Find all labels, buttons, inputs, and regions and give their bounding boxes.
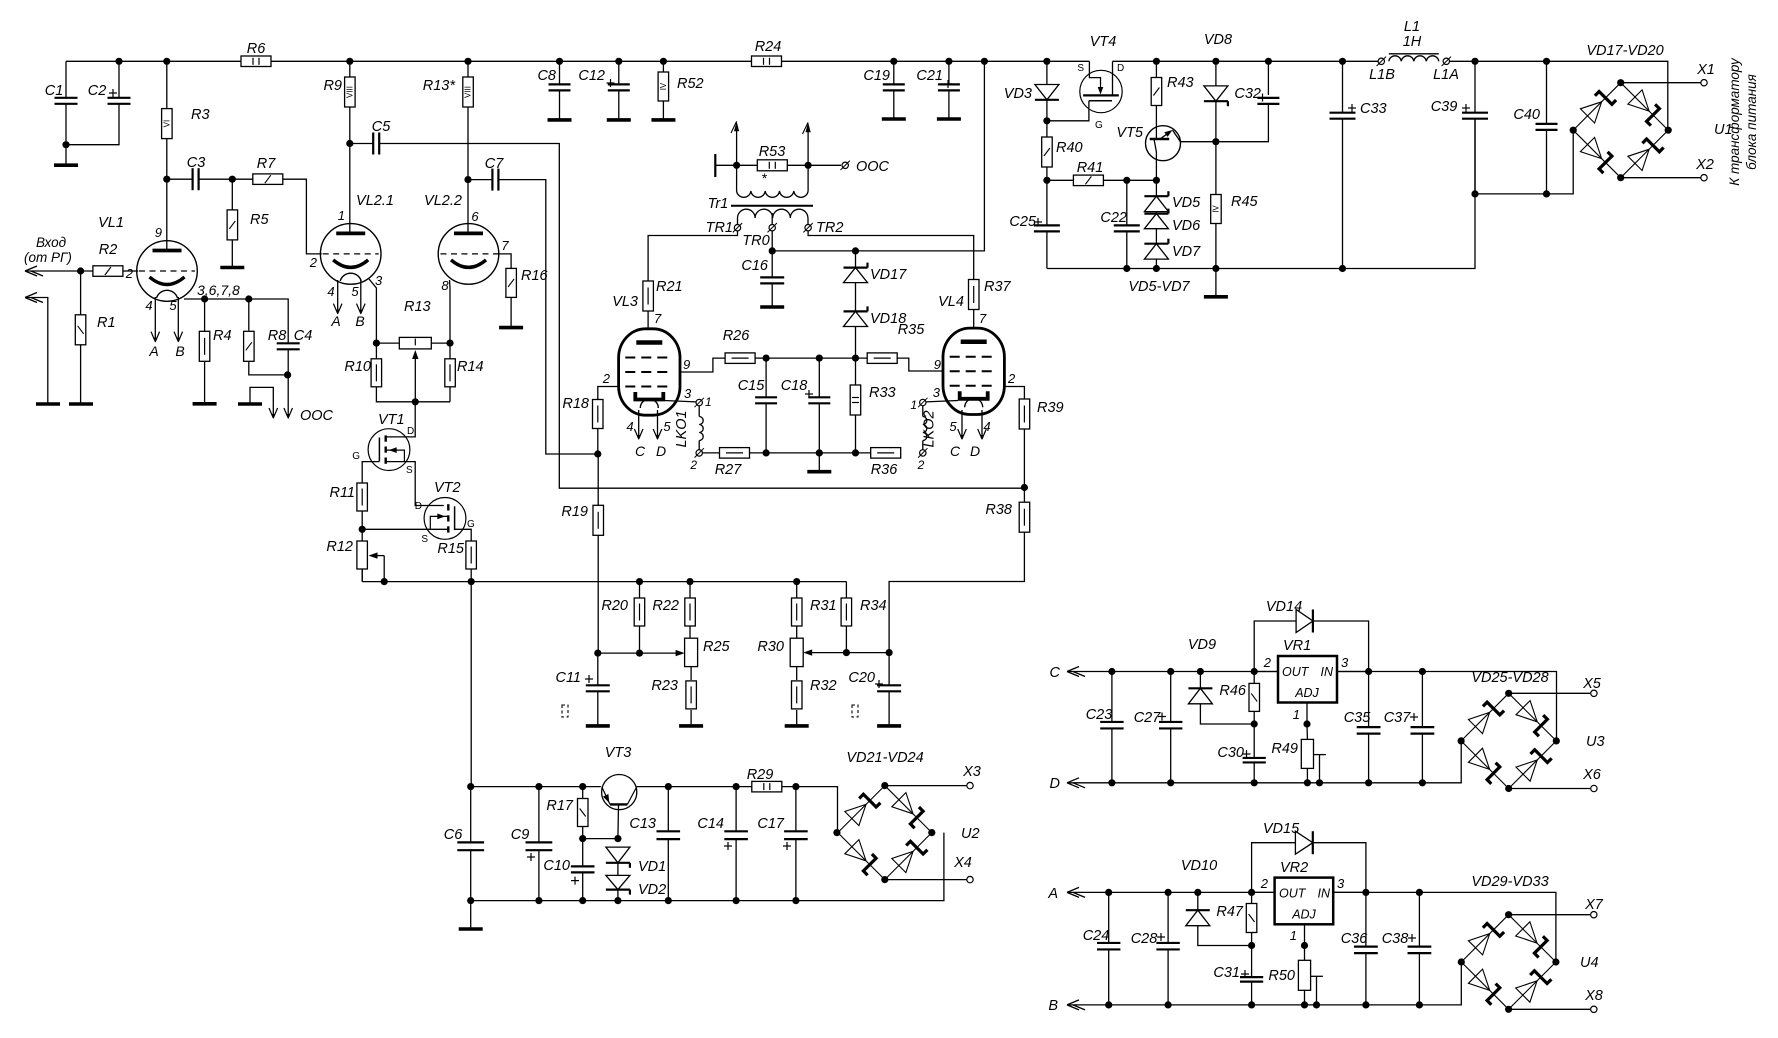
terminal X2: [1621, 177, 1701, 179]
svg-text:C16: C16: [741, 258, 769, 274]
capacitor C8: [559, 61, 561, 84]
resistor R10: [375, 343, 377, 359]
ground under R23: [679, 724, 703, 728]
svg-text:2: 2: [1007, 371, 1016, 386]
svg-text:9: 9: [683, 357, 690, 372]
resistor R22: [689, 582, 691, 598]
capacitor C37: [1421, 672, 1423, 728]
capacitor C7: [464, 176, 471, 183]
svg-text:R21: R21: [656, 279, 683, 295]
rail B: [1067, 962, 1461, 1005]
diode VD15: [1252, 843, 1296, 893]
transistor VT3 bjt: [602, 775, 637, 810]
svg-text:1: 1: [705, 395, 712, 409]
svg-text:R26: R26: [723, 328, 751, 344]
resistor R46: [1253, 672, 1255, 684]
trimmer tap R49: [1314, 754, 1326, 756]
terminal TR2: [805, 225, 811, 231]
resistor R24: [752, 56, 782, 67]
capacitor C33: [1342, 61, 1344, 112]
transistor VT5 bjt: [1155, 106, 1157, 140]
capacitor C21: [948, 61, 950, 84]
transistor VT4 mosfet pass: [1080, 70, 1122, 112]
svg-text:R23: R23: [651, 678, 678, 694]
svg-text:R11: R11: [329, 485, 355, 501]
svg-text:L1В: L1В: [1369, 67, 1395, 83]
svg-text:VD7: VD7: [1172, 244, 1201, 260]
svg-text:IN: IN: [1321, 665, 1334, 679]
resistor R12 potentiometer: [357, 541, 368, 569]
svg-text:7: 7: [501, 238, 509, 253]
svg-text:C21: C21: [916, 68, 943, 84]
cathode bottom wire LKO1 R27 R36 LKO2: [702, 452, 870, 454]
svg-text:R13: R13: [404, 299, 431, 315]
svg-text:R20: R20: [601, 598, 628, 614]
svg-text:C32: C32: [1234, 86, 1261, 102]
svg-text:VD9: VD9: [1188, 637, 1216, 653]
svg-text:X3: X3: [962, 764, 981, 780]
svg-text:1: 1: [338, 208, 345, 223]
svg-text:R2: R2: [99, 242, 118, 258]
terminal TR1: [734, 225, 740, 231]
resistor R47: [1251, 892, 1253, 903]
wiper wire to R30: [807, 652, 890, 654]
arrow up right of Tr1: [807, 128, 809, 165]
svg-text:VI: VI: [162, 120, 171, 128]
wire VL3 cathode pin3 to LKO1: [664, 401, 696, 402]
capacitor C24: [1108, 892, 1110, 943]
svg-text:VT2: VT2: [434, 480, 461, 496]
svg-text:R18: R18: [562, 396, 589, 412]
svg-text:ООС: ООС: [300, 408, 334, 424]
ground under C8: [548, 118, 572, 122]
ground under R52: [651, 118, 675, 122]
svg-text:R37: R37: [984, 279, 1012, 295]
bridge U2 VD21-VD24: [838, 786, 885, 833]
svg-text:C8: C8: [537, 68, 556, 84]
wire VL3 screen pin9 to R26: [680, 358, 725, 372]
capacitor C32: [1267, 61, 1269, 95]
capacitor C22: [1126, 180, 1128, 225]
resistor R3: [166, 61, 168, 179]
svg-text:A: A: [1047, 886, 1058, 902]
resistor R34: [845, 582, 847, 598]
svg-text:C11: C11: [555, 670, 581, 686]
svg-text:C19: C19: [863, 68, 890, 84]
resistor R8: [248, 299, 250, 331]
wire VL4 grid pin2 to R39: [1004, 387, 1024, 399]
terminal X6: [1509, 788, 1590, 790]
ground under C20: [877, 724, 901, 728]
svg-text:R7: R7: [257, 156, 276, 172]
ground under R16: [499, 326, 523, 330]
svg-text:R8: R8: [268, 328, 287, 344]
svg-text:R52: R52: [677, 76, 704, 92]
resistor R13* top: [467, 61, 469, 179]
capacitor C23: [1111, 672, 1113, 722]
svg-text:R1: R1: [97, 315, 116, 331]
svg-text:2: 2: [917, 458, 925, 472]
svg-text:3: 3: [375, 273, 383, 288]
svg-text:U2: U2: [961, 826, 980, 842]
wiper of R12: [383, 556, 385, 582]
resistor R23: [690, 667, 692, 680]
svg-text:R46: R46: [1219, 683, 1247, 699]
svg-text:C4: C4: [294, 328, 313, 344]
svg-text:B: B: [1048, 998, 1058, 1014]
svg-text:C28: C28: [1131, 931, 1158, 947]
svg-text:VD5-VD7: VD5-VD7: [1128, 279, 1190, 295]
terminal X4: [885, 879, 967, 881]
resistor R26: [725, 353, 755, 364]
svg-text:3,6,7,8: 3,6,7,8: [197, 282, 240, 298]
resistor R15: [466, 541, 477, 569]
svg-text:R14: R14: [457, 359, 484, 375]
wire VT4 gate to VD3 node: [1047, 101, 1089, 121]
svg-text:R10: R10: [344, 359, 371, 375]
diode VD18 zener: [855, 283, 857, 312]
svg-text:LKO1: LKO1: [674, 410, 690, 447]
resistor R30 potentiometer: [790, 638, 803, 666]
svg-text:VD1: VD1: [638, 859, 666, 875]
svg-text:3: 3: [1341, 655, 1349, 670]
wire R15 junction down to lower rail: [470, 582, 472, 787]
diode VD14: [1254, 621, 1296, 672]
tube VL4 pentode: [943, 328, 1004, 414]
wire VL4 cathode pin3 to LKO2: [926, 401, 958, 402]
capacitor C31: [1251, 946, 1253, 978]
svg-text:C22: C22: [1100, 210, 1127, 226]
svg-text:TR1: TR1: [706, 220, 733, 236]
svg-text:Вход: Вход: [36, 235, 67, 250]
svg-text:R13*: R13*: [423, 78, 457, 94]
svg-text:R5: R5: [250, 212, 269, 228]
terminal X3: [885, 785, 967, 787]
svg-text:4: 4: [626, 419, 633, 434]
dashed variant mark near C11: [562, 705, 568, 717]
svg-text:R22: R22: [652, 598, 679, 614]
svg-text:R38: R38: [985, 502, 1012, 518]
rail C: [1067, 672, 1557, 741]
svg-text:VD8: VD8: [1204, 32, 1232, 48]
resistor R27: [720, 448, 750, 459]
svg-text:C6: C6: [444, 827, 463, 843]
VT1 substrate arrow: [386, 450, 405, 462]
svg-text:2: 2: [125, 266, 134, 281]
bridge U1 VD17-VD20: [1573, 83, 1621, 131]
svg-text:C2: C2: [88, 83, 107, 99]
wire R17 to VD1 node: [583, 838, 618, 840]
svg-text:5: 5: [949, 419, 957, 434]
resistor R32: [796, 667, 798, 680]
svg-text:4: 4: [145, 298, 152, 313]
svg-text:2: 2: [689, 458, 697, 472]
wire VT2 source to R11 R12 node: [362, 528, 448, 530]
svg-text:IN: IN: [1318, 887, 1331, 901]
wire IN pin3 VR2: [1333, 891, 1366, 893]
svg-text:VIII: VIII: [464, 86, 473, 98]
capacitor C9: [538, 787, 540, 843]
svg-text:R39: R39: [1037, 400, 1064, 416]
bottom return rail of regulator head: [1047, 119, 1475, 269]
svg-text:VD2: VD2: [638, 882, 666, 898]
capacitor C39: [1474, 61, 1476, 112]
svg-text:R19: R19: [561, 504, 588, 520]
svg-text:*: *: [761, 170, 767, 186]
terminal TR0: [769, 225, 775, 231]
svg-text:1Н: 1Н: [1403, 34, 1422, 50]
svg-text:U3: U3: [1586, 734, 1605, 750]
svg-text:D: D: [656, 443, 666, 459]
svg-text:C10: C10: [543, 858, 570, 874]
svg-text:R43: R43: [1167, 75, 1194, 91]
svg-text:X4: X4: [953, 855, 972, 871]
svg-text:R25: R25: [703, 639, 731, 655]
wire VT1 source to VT2 drain: [386, 462, 444, 506]
svg-text:R45: R45: [1231, 194, 1259, 210]
wiper of R13: [414, 356, 416, 402]
capacitor C12: [618, 61, 620, 84]
wire TR2 to R37: [808, 231, 974, 280]
diode VD9: [1199, 672, 1201, 689]
resistor R14: [449, 343, 451, 359]
bottom ground rail: [471, 833, 944, 901]
svg-text:R29: R29: [747, 767, 774, 783]
svg-text:U4: U4: [1580, 955, 1599, 971]
wire VL1 cathode bus 3,6,7,8: [184, 299, 288, 344]
dashed variant mark near C20: [852, 705, 858, 717]
svg-text:VT1: VT1: [378, 412, 405, 428]
capacitor C2: [118, 61, 120, 98]
svg-text:C5: C5: [372, 119, 391, 135]
wire VL2.2 cathode pin8 down: [449, 280, 452, 343]
wire VL3 grid pin2 to R18: [598, 387, 619, 400]
svg-text:D: D: [407, 426, 414, 437]
ground under C19: [882, 117, 906, 121]
rail D: [1067, 741, 1461, 783]
wiper wire to R25: [598, 652, 681, 654]
svg-text:VD21-VD24: VD21-VD24: [846, 750, 923, 766]
svg-text:C23: C23: [1086, 707, 1113, 723]
svg-text:C24: C24: [1083, 928, 1110, 944]
trimmer tap R50: [1311, 975, 1323, 977]
ground under C1 C2: [65, 145, 67, 166]
svg-text:C30: C30: [1217, 745, 1244, 761]
resistor R17: [582, 787, 584, 799]
heater pins VL2.1: [337, 280, 339, 313]
wire OUT pin2 VR2: [1252, 891, 1275, 893]
capacitor C38: [1418, 892, 1420, 946]
regulator VR2: [1275, 878, 1334, 925]
svg-text:5: 5: [663, 419, 671, 434]
resistor R1: [80, 271, 82, 404]
rail A: [1067, 892, 1556, 962]
svg-text:Tr1: Tr1: [708, 196, 729, 212]
svg-text:R33: R33: [869, 385, 896, 401]
ground under shield: [36, 402, 60, 406]
resistor R6: [241, 56, 271, 67]
svg-text:VL3: VL3: [612, 294, 638, 310]
svg-text:C13: C13: [629, 816, 656, 832]
terminal bar left of R53: [714, 154, 716, 177]
capacitor C14: [735, 787, 737, 832]
svg-text:2: 2: [1260, 876, 1269, 891]
svg-text:S: S: [421, 534, 428, 545]
ground under C12: [607, 118, 631, 122]
svg-text:B: B: [175, 343, 184, 359]
ground under R32: [785, 724, 809, 728]
terminal X7: [1509, 914, 1590, 916]
svg-text:S: S: [406, 465, 413, 476]
diode VD1 zener: [606, 847, 630, 863]
svg-text:VD6: VD6: [1172, 218, 1201, 234]
wire TR0 to C16 node: [771, 231, 773, 278]
inductor LKO1: [696, 399, 702, 405]
svg-text:R16: R16: [521, 268, 549, 284]
svg-text:2: 2: [309, 255, 318, 270]
wire ADJ pin1 VR2: [1304, 924, 1306, 945]
resistor R45: [1215, 142, 1217, 195]
svg-text:К трансформатору: К трансформатору: [1727, 57, 1742, 186]
svg-text:1: 1: [1290, 928, 1297, 943]
resistor R37: [969, 280, 980, 310]
svg-text:VL4: VL4: [938, 294, 964, 310]
transformer Tr1 core: [731, 205, 813, 207]
svg-text:TR0: TR0: [742, 233, 769, 249]
wire main B+ top bus: [66, 60, 1089, 62]
resistor R43: [1155, 61, 1157, 77]
resistor R18: [593, 400, 604, 429]
diode VD8 zener: [1215, 61, 1217, 86]
resistor R33: [855, 358, 857, 385]
wire C4 to OOC arrow: [287, 375, 289, 418]
svg-text:IV: IV: [1211, 205, 1220, 213]
capacitor C18: [818, 358, 820, 397]
resistor R19: [593, 505, 604, 535]
capacitor C6: [470, 787, 472, 843]
svg-text:C25: C25: [1009, 214, 1037, 230]
svg-text:1: 1: [910, 398, 917, 412]
svg-text:A: A: [148, 343, 158, 359]
svg-text:C17: C17: [757, 816, 785, 832]
svg-text:C18: C18: [781, 378, 808, 394]
svg-text:VT4: VT4: [1090, 34, 1117, 50]
svg-text:R27: R27: [715, 462, 743, 478]
terminal X5: [1509, 692, 1590, 694]
svg-text:D: D: [1117, 63, 1124, 74]
svg-text:R49: R49: [1271, 741, 1298, 757]
svg-text:VD18: VD18: [870, 311, 906, 327]
wire R19 bottom to C11: [597, 535, 599, 653]
svg-text:1: 1: [1293, 707, 1300, 722]
svg-text:C14: C14: [697, 816, 724, 832]
tube VL2.2 triode: [467, 180, 469, 235]
capacitor C4: [277, 342, 300, 344]
diodes VD5 VD6 VD7 zener stack: [1155, 180, 1157, 196]
svg-text:R6: R6: [247, 41, 266, 57]
resistor R16: [506, 268, 517, 297]
wire input shield arrow: [25, 298, 37, 303]
resistor R11: [357, 483, 368, 511]
wire TR1 to R21: [648, 231, 737, 281]
svg-text:C27: C27: [1134, 710, 1162, 726]
wire R13 wiper to VT1 drain: [386, 402, 416, 437]
svg-text:VD14: VD14: [1266, 599, 1302, 615]
svg-text:7: 7: [654, 311, 662, 326]
svg-text:B: B: [355, 313, 364, 329]
svg-text:2: 2: [1263, 655, 1272, 670]
svg-text:R15: R15: [437, 541, 465, 557]
svg-text:C: C: [950, 443, 961, 459]
svg-text:(от РГ): (от РГ): [24, 250, 72, 265]
svg-text:C12: C12: [578, 68, 605, 84]
resistor R20: [639, 582, 641, 598]
tube VL3 pentode: [619, 329, 680, 415]
svg-text:R50: R50: [1268, 968, 1295, 984]
svg-text:VD25-VD28: VD25-VD28: [1471, 670, 1548, 686]
svg-text:3: 3: [1337, 876, 1345, 891]
capacitor C17: [795, 787, 797, 832]
svg-text:2: 2: [602, 371, 611, 386]
svg-text:R3: R3: [191, 107, 210, 123]
heater pins VL4: [961, 410, 963, 439]
resistor R53: [733, 162, 740, 169]
svg-text:VL2.2: VL2.2: [424, 193, 462, 209]
diode VD3: [1046, 61, 1048, 84]
svg-text:C3: C3: [187, 155, 206, 171]
svg-text:R32: R32: [810, 678, 837, 694]
arrow up left of Tr1: [736, 128, 738, 165]
capacitor C3: [163, 176, 170, 183]
svg-text:G: G: [1095, 120, 1103, 131]
wire VT2 gate to R15: [455, 529, 472, 541]
resistor R40: [1042, 137, 1053, 167]
svg-text:9: 9: [155, 225, 162, 240]
resistor R35: [867, 353, 897, 364]
svg-text:C: C: [635, 443, 646, 459]
svg-text:C20: C20: [848, 670, 875, 686]
svg-text:C39: C39: [1431, 99, 1458, 115]
svg-text:G: G: [352, 451, 360, 462]
svg-text:C37: C37: [1384, 710, 1412, 726]
capacitor C35: [1368, 672, 1370, 728]
svg-text:C15: C15: [738, 378, 766, 394]
capacitor C19: [893, 61, 895, 84]
resistor R21: [643, 281, 654, 311]
heater pins VL1: [154, 297, 156, 341]
capacitor C5: [346, 140, 353, 147]
svg-text:VIII: VIII: [345, 86, 354, 98]
resistor R31: [796, 582, 798, 598]
svg-text:A: A: [330, 313, 340, 329]
svg-text:VR2: VR2: [1280, 860, 1308, 876]
resistor R49 trimmer: [1306, 724, 1308, 740]
resistor R25 potentiometer: [685, 638, 698, 666]
resistor R41: [1043, 177, 1050, 184]
svg-text:9: 9: [934, 357, 941, 372]
svg-text:OUT: OUT: [1279, 887, 1307, 901]
svg-text:VD17: VD17: [870, 267, 907, 283]
resistor R50 trimmer: [1304, 946, 1306, 961]
svg-text:4: 4: [327, 284, 334, 299]
svg-text:C38: C38: [1382, 931, 1409, 947]
svg-text:IV: IV: [659, 82, 668, 90]
diode VD2 zener: [617, 863, 619, 876]
wire VL2.2 grid pin7 to R16: [495, 254, 511, 269]
svg-text:R31: R31: [810, 598, 837, 614]
ground under R1: [69, 402, 93, 406]
VT2 substrate arrow: [430, 516, 448, 529]
